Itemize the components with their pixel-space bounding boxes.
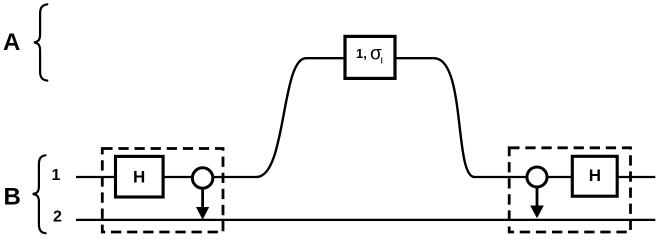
- measurement circle right: [527, 167, 547, 187]
- svg-text:1: 1: [52, 167, 61, 184]
- arrowhead left: [196, 207, 209, 220]
- wire A left segment: [305, 57, 346, 59]
- brace A: [34, 4, 47, 80]
- svg-text:H: H: [133, 168, 145, 187]
- wire curve to right circle: [473, 176, 526, 178]
- svg-text:2: 2: [53, 209, 62, 226]
- svg-text:B: B: [4, 184, 21, 211]
- arrowhead right: [530, 206, 544, 219]
- arrow left stem: [201, 188, 204, 210]
- svg-text:A: A: [3, 29, 20, 56]
- wire circle to H right: [548, 176, 573, 178]
- gate H left: [116, 156, 164, 197]
- wire circle to curve: [213, 176, 257, 178]
- arrow right stem: [536, 187, 539, 209]
- dashed box left: [102, 149, 223, 233]
- brace B: [33, 155, 46, 233]
- wire H to circle: [163, 176, 192, 178]
- gate H right: [572, 156, 617, 196]
- gate box 1,sigma_i: [345, 36, 395, 78]
- wire B1 right segment: [617, 176, 655, 178]
- measurement circle left: [192, 168, 213, 189]
- wire curve down (right S-curve): [434, 58, 475, 177]
- wire A right segment: [394, 57, 435, 59]
- svg-text:1,: 1,: [356, 46, 367, 61]
- wire B2: [76, 219, 655, 221]
- svg-text:H: H: [589, 166, 601, 185]
- dashed box right: [509, 148, 630, 232]
- wire B1 left segment: [76, 176, 116, 178]
- wire curve up (left S-curve): [257, 58, 307, 177]
